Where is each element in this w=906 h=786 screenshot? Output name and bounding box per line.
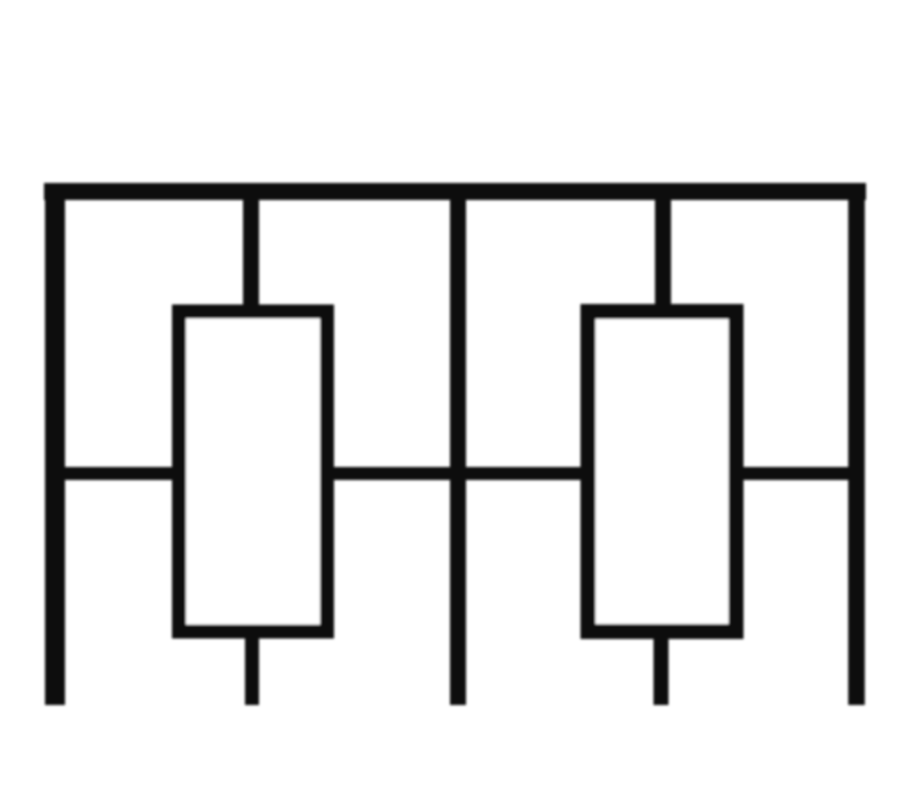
wire lower stub right: [654, 632, 669, 705]
node rectangle right: [588, 312, 736, 632]
wire left post: [45, 184, 65, 705]
node rectangle left: [179, 312, 327, 632]
wire upper stub left: [243, 192, 259, 312]
wire top rail: [44, 183, 866, 200]
wire center post: [450, 184, 466, 705]
wire lower stub left: [245, 632, 259, 705]
wire upper stub right: [655, 192, 671, 312]
wire mid horizontal rail: [45, 467, 864, 480]
wire right post: [848, 184, 865, 705]
